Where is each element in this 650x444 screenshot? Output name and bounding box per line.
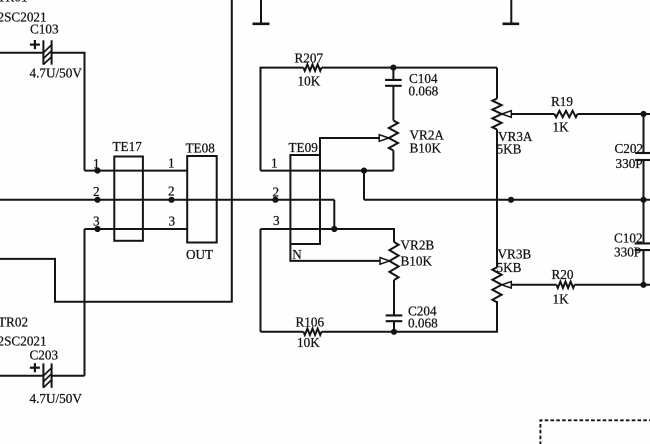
resistor R106: [304, 329, 322, 335]
svg-text:3: 3: [169, 214, 176, 229]
wire C203 left lead: [0, 375, 43, 377]
wire C202 bottom lead: [643, 161, 645, 200]
svg-text:R106: R106: [296, 315, 325, 330]
svg-text:1: 1: [168, 156, 175, 171]
capacitor C102 label: [614, 231, 643, 246]
dashed block boundary: [540, 420, 650, 444]
wire VR2B bottom lead: [393, 280, 395, 315]
pin label TE08-2: [168, 184, 175, 199]
wire VR3B wiper to R20: [511, 284, 556, 286]
capacitor C202: [635, 153, 650, 160]
capacitor C204 label: [408, 304, 437, 319]
node main row mid: [508, 197, 514, 203]
svg-text:2: 2: [273, 185, 280, 200]
wire main row left: [0, 199, 334, 201]
svg-text:5KB: 5KB: [497, 260, 522, 275]
transistor TR02 type 2SC2021: [0, 333, 47, 348]
node pin3 jog junction: [331, 226, 337, 232]
capacitor C103 polarity +: [30, 40, 40, 49]
node TE17 pin 1: [94, 168, 100, 174]
potentiometer VR3A value 5KB: [497, 142, 522, 157]
resistor R106 value 10K: [297, 335, 320, 350]
svg-text:10K: 10K: [298, 74, 321, 89]
svg-text:TE17: TE17: [113, 139, 143, 154]
svg-text:TR02: TR02: [0, 315, 28, 330]
node TE08 pin 2: [168, 197, 174, 203]
potentiometer VR3B wiper arrow: [502, 282, 512, 289]
capacitor C103: [43, 40, 51, 64]
svg-text:1K: 1K: [553, 292, 570, 307]
wire VR2A wiper: [320, 138, 379, 155]
wire main row right: [364, 199, 650, 201]
svg-text:OUT: OUT: [186, 247, 213, 262]
capacitor C203 label: [30, 348, 59, 363]
svg-text:R207: R207: [295, 51, 324, 66]
wire bottom bus right: [322, 301, 498, 332]
wire C204 bottom lead: [393, 322, 395, 332]
node C204 bottom junction: [391, 329, 397, 335]
resistor R20 label: [552, 267, 574, 282]
wire pin-1 row TE17-TE08: [85, 170, 188, 172]
potentiometer VR3A label: [498, 129, 533, 144]
wire R207 to VR3A: [322, 67, 498, 69]
wire C104 to VR2A: [392, 87, 394, 121]
wire pin-3 row from C203 to TE08: [85, 228, 188, 230]
node TE17 pin 3: [94, 226, 100, 232]
svg-text:1K: 1K: [553, 120, 570, 135]
resistor R207 value 10K: [298, 74, 321, 89]
svg-text:330P: 330P: [616, 156, 643, 171]
svg-text:1: 1: [271, 156, 278, 171]
svg-text:2: 2: [93, 184, 100, 199]
svg-text:4.7U/50V: 4.7U/50V: [30, 66, 83, 81]
transistor TR01 type 2SC2021: [0, 10, 47, 25]
resistor R20 value 1K: [553, 292, 570, 307]
wire pin-3 row TE09 to VR2B: [261, 229, 395, 242]
potentiometer VR2B value B10K: [401, 254, 433, 269]
connector TE09 IN label: [292, 247, 302, 262]
potentiometer VR3B label: [498, 247, 532, 262]
capacitor C104 value 0.068: [409, 84, 439, 99]
wire C203 riser: [84, 229, 86, 376]
wire R106 riser: [260, 229, 262, 332]
wire VR2A bottom lead: [392, 151, 394, 171]
potentiometer VR3B value 5KB: [497, 260, 522, 275]
svg-text:TE08: TE08: [186, 141, 216, 156]
node TE09 pin 2: [272, 197, 278, 203]
svg-text:3: 3: [93, 214, 100, 229]
svg-text:5KB: 5KB: [497, 142, 522, 157]
resistor R106 label: [296, 315, 325, 330]
capacitor C104 label: [409, 71, 438, 86]
svg-text:4.7U/50V: 4.7U/50V: [30, 391, 83, 406]
pin label TE08-1: [168, 156, 175, 171]
wire R20 to right edge: [575, 284, 650, 286]
capacitor C103 label: [30, 22, 59, 37]
wire bottom bus left: [261, 331, 304, 333]
pin label TE09-1: [271, 156, 278, 171]
capacitor C204 value 0.068: [408, 316, 438, 331]
wire VR2B wiper: [290, 244, 380, 261]
node C104 top junction: [390, 65, 396, 71]
wire C102 bottom lead: [643, 251, 645, 285]
svg-text:C203: C203: [30, 348, 59, 363]
transistor TR01 label: [0, 0, 28, 5]
svg-text:2: 2: [168, 184, 175, 199]
wire C104 top lead: [392, 68, 394, 80]
connector TE08 OUT label: [186, 247, 213, 262]
wire C202 top lead: [643, 114, 645, 152]
node main row right vertical: [640, 197, 646, 203]
svg-text:VR2B: VR2B: [401, 238, 435, 253]
capacitor C204: [386, 315, 403, 321]
connector TE09 label: [289, 140, 319, 155]
wire jog main to pin3: [333, 200, 335, 229]
svg-text:B10K: B10K: [401, 254, 433, 269]
capacitor C102: [635, 243, 650, 250]
transistor TR02 label: [0, 315, 28, 330]
resistor R207 label: [295, 51, 324, 66]
wire VR3A wiper to R19: [511, 113, 554, 115]
connector TE09: [290, 155, 320, 244]
svg-text:N: N: [292, 247, 302, 262]
resistor R19 value 1K: [553, 120, 570, 135]
node TE17 pin 2: [94, 197, 100, 203]
connector TE17: [114, 157, 143, 241]
pin label TE17-2: [93, 184, 100, 199]
wire jog pin1 to main: [363, 171, 365, 200]
potentiometer VR2B: [389, 242, 398, 280]
wire C103 to TE17 pin 1: [52, 53, 85, 171]
svg-text:R19: R19: [551, 94, 573, 109]
svg-text:R20: R20: [552, 267, 574, 282]
capacitor C103 value 4.7U/50V: [30, 66, 83, 81]
capacitor C202 label: [615, 141, 644, 156]
pin label TE17-3: [93, 214, 100, 229]
capacitor C203 value 4.7U/50V: [30, 391, 83, 406]
wire VR3A top lead: [496, 68, 498, 99]
svg-text:3: 3: [273, 213, 280, 228]
connector TE08: [187, 156, 217, 243]
wire C102 top lead: [643, 200, 645, 243]
potentiometer VR2B wiper arrow: [380, 258, 390, 265]
svg-text:TE09: TE09: [289, 140, 319, 155]
pin label TE09-3: [273, 213, 280, 228]
svg-text:B10K: B10K: [410, 141, 442, 156]
potentiometer VR2A label: [410, 128, 445, 143]
potentiometer VR2B label: [401, 238, 435, 253]
pin label TE08-3: [169, 214, 176, 229]
pin label TE09-2: [273, 185, 280, 200]
svg-text:0.068: 0.068: [409, 84, 439, 99]
wire R207 left riser: [261, 68, 304, 171]
svg-text:1: 1: [93, 156, 100, 171]
resistor R19 label: [551, 94, 573, 109]
potentiometer VR3A wiper arrow: [502, 111, 512, 118]
pin label TE17-1: [93, 156, 100, 171]
connector TE08 label: [186, 141, 216, 156]
svg-text:TR01: TR01: [0, 0, 28, 5]
svg-text:330P: 330P: [614, 245, 641, 260]
potentiometer VR2A: [389, 121, 398, 151]
node R20 C102 junction: [640, 282, 646, 288]
resistor R20: [557, 282, 575, 288]
svg-text:C103: C103: [30, 22, 59, 37]
potentiometer VR3A: [492, 99, 501, 130]
potentiometer VR2A wiper arrow: [379, 135, 389, 142]
wire R19 to right edge: [578, 113, 650, 115]
wire C103 left lead: [0, 52, 43, 54]
capacitor C104: [385, 80, 402, 86]
connector TE17 label: [113, 139, 143, 154]
svg-text:2SC2021: 2SC2021: [0, 333, 47, 348]
node R19 C202 junction: [640, 111, 646, 117]
wire pin-1 row TE09: [261, 170, 394, 172]
wire long vertical bus: [0, 0, 232, 302]
wire C203 to riser: [52, 375, 85, 377]
wire VR3 mid: [496, 130, 498, 268]
capacitor C203 polarity +: [30, 363, 40, 372]
svg-text:0.068: 0.068: [408, 316, 438, 331]
node VR2A bottom junction: [361, 168, 367, 174]
resistor R207: [304, 64, 322, 70]
capacitor C202 value 330P: [616, 156, 643, 171]
terminal stub T1: [253, 0, 270, 24]
capacitor C102 value 330P: [614, 245, 641, 260]
capacitor C203: [43, 363, 51, 387]
terminal stub T2: [503, 0, 520, 24]
potentiometer VR3B: [492, 267, 501, 302]
potentiometer VR2A value B10K: [410, 141, 442, 156]
resistor R19: [555, 111, 578, 117]
svg-text:10K: 10K: [297, 335, 320, 350]
